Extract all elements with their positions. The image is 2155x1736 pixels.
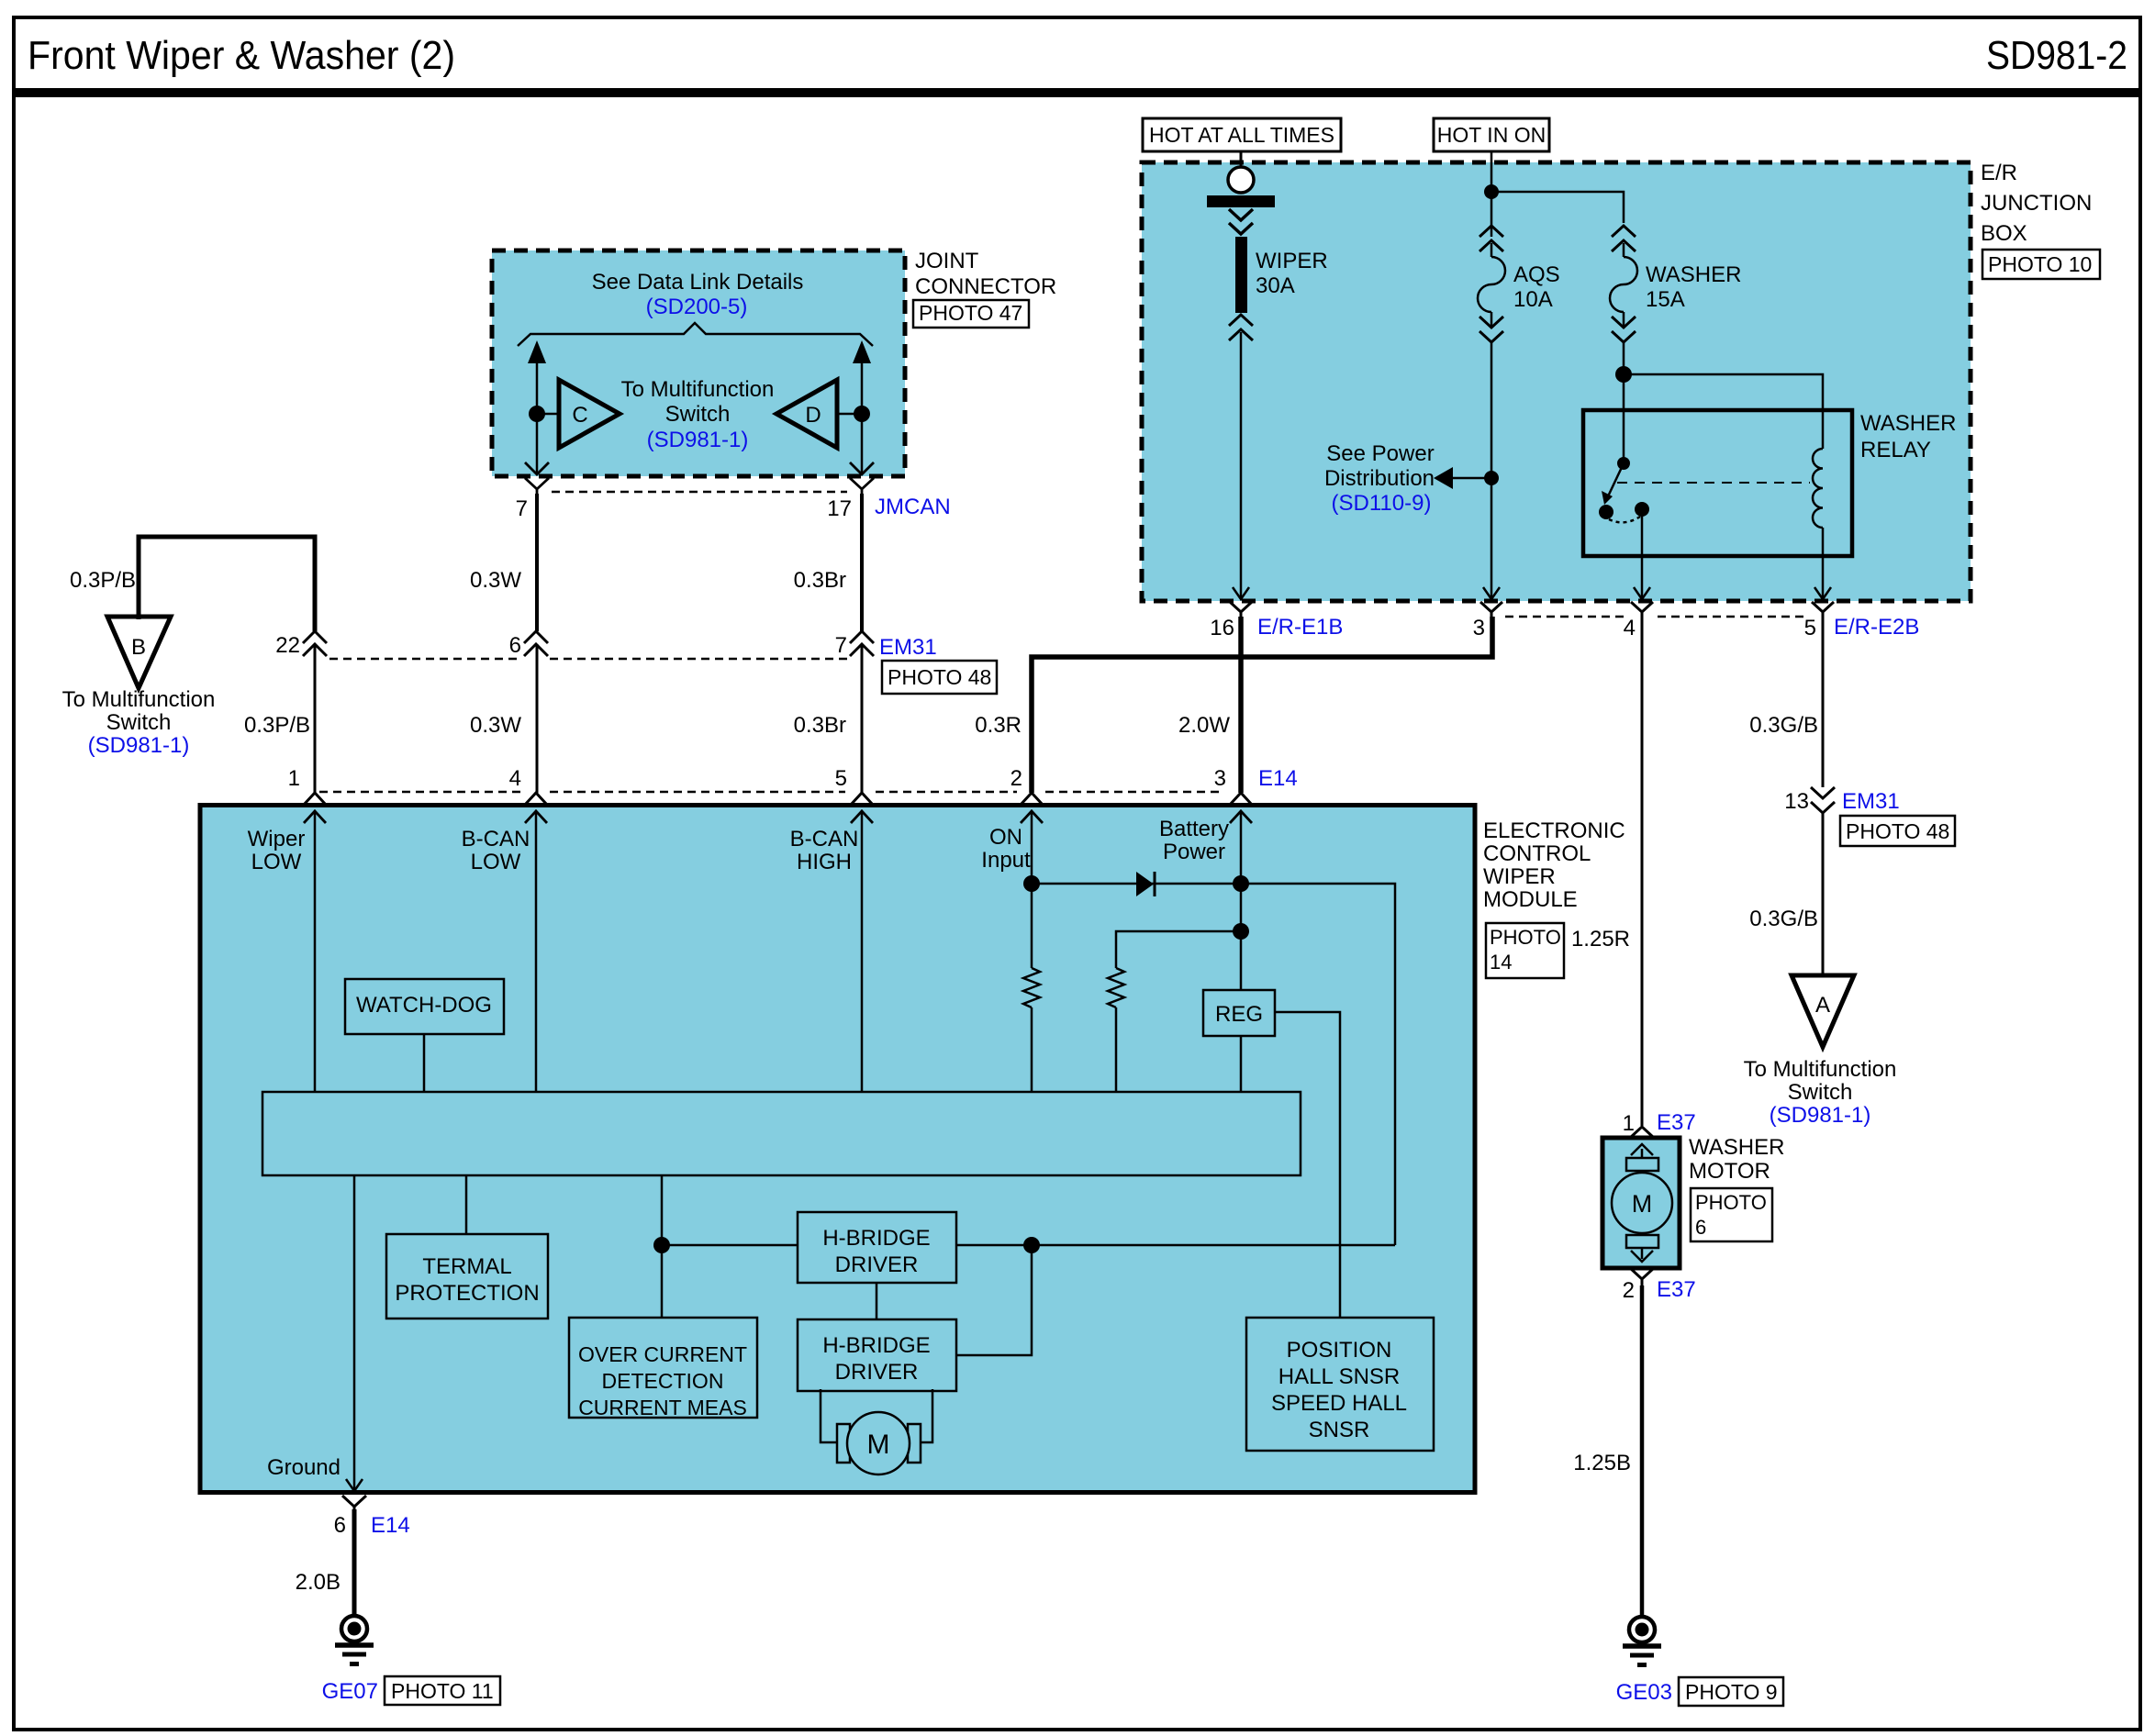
diode [1032, 883, 1241, 885]
node [1615, 366, 1632, 383]
termal protection box [386, 1234, 548, 1319]
svg-text:Distribution: Distribution [1324, 466, 1435, 491]
EM31-13 branch [1744, 618, 1955, 1128]
connector pin 7 EM31 [850, 631, 874, 656]
connector pin 7 JMCAN [525, 462, 549, 495]
svg-text:DETECTION: DETECTION [602, 1369, 724, 1393]
wire to h-bridge 1 [662, 1244, 798, 1247]
connector pin 6 [524, 631, 548, 656]
wires joint connector to E14 [244, 494, 1492, 793]
node on left wire [529, 406, 545, 422]
connector pin 13 EM31 [1811, 787, 1835, 813]
svg-text:5: 5 [1804, 616, 1816, 640]
svg-text:0.3P/B: 0.3P/B [70, 568, 136, 593]
wire to washer fuse [1491, 192, 1624, 223]
connector pin 1 E37 [1630, 1127, 1654, 1138]
node [1023, 1237, 1040, 1253]
wire 2.0B [352, 1509, 357, 1616]
svg-text:PROTECTION: PROTECTION [395, 1281, 539, 1306]
relay mech dashed line [1617, 482, 1810, 484]
node on right wire [854, 406, 870, 422]
svg-text:Switch: Switch [665, 402, 731, 427]
svg-text:HOT IN ON: HOT IN ON [1437, 123, 1546, 147]
wire on input [1031, 811, 1033, 968]
svg-text:H-BRIDGE: H-BRIDGE [822, 1333, 930, 1358]
svg-text:D: D [805, 403, 821, 428]
E14 connector row [288, 766, 1298, 805]
washer relay box [1583, 410, 1852, 556]
svg-text:Switch: Switch [106, 710, 172, 735]
EM31 connector row [275, 631, 997, 694]
module pin chevrons [304, 811, 1252, 823]
svg-text:GE03: GE03 [1616, 1680, 1672, 1705]
svg-text:14: 14 [1490, 951, 1512, 974]
connector pin 22 [303, 631, 327, 656]
svg-text:22: 22 [275, 633, 300, 658]
wire to termal protection [465, 1175, 468, 1234]
buffer C [559, 380, 620, 448]
E/R-E2B dashed link [1505, 616, 1626, 618]
wire 1.25B [1640, 1285, 1645, 1618]
wire battery power [1240, 811, 1243, 990]
svg-text:2: 2 [1623, 1278, 1635, 1303]
relay coil [1813, 449, 1823, 528]
connector pin 16 E/R-E1B [1230, 602, 1252, 620]
svg-text:2.0W: 2.0W [1178, 713, 1230, 738]
wire [861, 351, 864, 473]
svg-text:Switch: Switch [1788, 1080, 1853, 1105]
wire 0.3G/B upper [1822, 618, 1825, 787]
wire 0.3P/B lower [314, 644, 317, 793]
svg-text:AQS: AQS [1513, 262, 1560, 287]
svg-text:4: 4 [1624, 616, 1636, 640]
svg-text:TERMAL: TERMAL [422, 1254, 511, 1279]
brace [518, 323, 873, 346]
svg-text:0.3W: 0.3W [470, 568, 521, 593]
h-bridge driver 2 [798, 1319, 956, 1391]
svg-text:LOW: LOW [251, 850, 302, 874]
wire reg to bus [1240, 1036, 1243, 1092]
node [653, 1237, 670, 1253]
wiper motor M [821, 1389, 837, 1442]
svg-text:M: M [1632, 1190, 1653, 1218]
wire 0.3W lower [536, 644, 539, 793]
wire to resistor 2 [1116, 931, 1241, 968]
svg-text:13: 13 [1784, 789, 1809, 814]
svg-text:(SD110-9): (SD110-9) [1332, 491, 1432, 516]
svg-text:POSITION: POSITION [1287, 1338, 1392, 1363]
wire 0.3R thick elbow [1032, 617, 1492, 793]
svg-text:HIGH: HIGH [797, 850, 852, 874]
svg-text:30A: 30A [1256, 273, 1295, 298]
svg-text:0.3W: 0.3W [470, 713, 521, 738]
wire watch-dog to bus [423, 1034, 426, 1092]
resistor R batt [1108, 968, 1124, 1007]
svg-text:A: A [1815, 993, 1830, 1018]
over current detection box [569, 1318, 757, 1418]
connector pin 2 [1021, 793, 1043, 805]
svg-text:1.25R: 1.25R [1571, 927, 1630, 951]
label HOT IN ON [1434, 118, 1549, 151]
ground GE07 [341, 1616, 367, 1641]
svg-text:0.3Br: 0.3Br [794, 713, 846, 738]
connector pin 6 E14 [342, 1496, 366, 1507]
svg-text:7: 7 [835, 633, 847, 658]
connector pin 4 [1631, 602, 1653, 620]
svg-text:Wiper: Wiper [248, 827, 306, 851]
svg-text:0.3P/B: 0.3P/B [244, 713, 310, 738]
svg-text:E/R-E2B: E/R-E2B [1834, 615, 1919, 640]
ground GE03 [1629, 1617, 1655, 1642]
svg-text:SD981-2: SD981-2 [1986, 33, 2127, 78]
svg-text:SNSR: SNSR [1309, 1418, 1370, 1442]
svg-text:JOINT: JOINT [915, 249, 979, 273]
wire [536, 351, 539, 473]
svg-text:REG: REG [1215, 1002, 1263, 1027]
svg-text:15A: 15A [1646, 287, 1685, 312]
svg-text:MODULE: MODULE [1483, 887, 1578, 912]
E/R junction box [1142, 118, 2100, 640]
wire [537, 413, 559, 416]
svg-text:WASHER: WASHER [1646, 262, 1741, 287]
svg-text:2.0B: 2.0B [296, 1570, 341, 1595]
position hall snsr box [1246, 1318, 1434, 1451]
wire washer fuse to relay [1623, 342, 1625, 463]
svg-text:PHOTO 48: PHOTO 48 [888, 665, 991, 689]
left branch to multifunction switch [62, 537, 315, 758]
wire to pin 16 [1240, 332, 1243, 599]
wire ground [353, 1175, 356, 1493]
node [1233, 875, 1249, 892]
wire b-can low [535, 811, 538, 1092]
svg-text:M: M [867, 1430, 890, 1460]
wire h2 right elbow [956, 1245, 1032, 1355]
svg-text:E14: E14 [1258, 766, 1298, 791]
svg-text:E/R: E/R [1981, 161, 2017, 185]
svg-text:GE07: GE07 [322, 1679, 378, 1704]
REG box [1203, 990, 1275, 1036]
svg-text:PHOTO 47: PHOTO 47 [919, 301, 1022, 325]
svg-text:HOT AT ALL TIMES: HOT AT ALL TIMES [1149, 123, 1334, 147]
wire wiper low [314, 811, 317, 1092]
wire 1.25R [1641, 618, 1644, 1126]
svg-text:CONTROL: CONTROL [1483, 841, 1591, 866]
connector pin 5 [851, 793, 873, 805]
svg-text:0.3G/B: 0.3G/B [1749, 713, 1818, 738]
svg-text:CONNECTOR: CONNECTOR [915, 274, 1056, 299]
node see power distribution [1484, 471, 1499, 485]
svg-text:WASHER: WASHER [1689, 1135, 1784, 1160]
off-page connector B [107, 617, 171, 688]
wire AQS to pin 3 [1491, 342, 1493, 599]
svg-text:DRIVER: DRIVER [835, 1360, 919, 1385]
svg-text:6: 6 [334, 1513, 346, 1538]
svg-text:Ground: Ground [267, 1455, 341, 1480]
svg-text:1: 1 [288, 766, 300, 791]
wire elbow 0.3P/B [139, 537, 315, 631]
svg-text:(SD200-5): (SD200-5) [646, 295, 748, 319]
washer motor [1602, 1138, 1680, 1268]
node [1233, 923, 1249, 940]
resistor R on [1023, 968, 1040, 1007]
svg-text:1.25B: 1.25B [1573, 1451, 1631, 1475]
svg-text:EM31: EM31 [1842, 789, 1900, 814]
svg-text:PHOTO 10: PHOTO 10 [1988, 252, 2092, 276]
svg-text:(SD981-1): (SD981-1) [647, 428, 749, 452]
svg-text:OVER CURRENT: OVER CURRENT [578, 1342, 747, 1366]
svg-text:H-BRIDGE: H-BRIDGE [822, 1226, 930, 1251]
svg-text:E/R-E1B: E/R-E1B [1257, 615, 1343, 640]
arrowhead up right [853, 340, 871, 363]
wire 2.0W thick [1238, 617, 1244, 793]
svg-text:E37: E37 [1657, 1110, 1696, 1135]
svg-text:WIPER: WIPER [1483, 864, 1556, 889]
connector pin 17 JMCAN [850, 462, 874, 495]
svg-text:Battery: Battery [1159, 817, 1229, 841]
cpu bus bar [262, 1092, 1301, 1175]
electronic control wiper module [200, 806, 1625, 1494]
svg-text:4: 4 [509, 766, 521, 791]
svg-text:3: 3 [1473, 616, 1485, 640]
wire 0.3Br upper [860, 494, 864, 631]
svg-text:6: 6 [1695, 1216, 1706, 1239]
node [1484, 184, 1499, 199]
wire battery feed right [1241, 884, 1395, 1245]
svg-text:WATCH-DOG: WATCH-DOG [356, 993, 492, 1018]
watch-dog [345, 979, 504, 1034]
arrowhead up left [528, 340, 546, 363]
svg-text:E14: E14 [371, 1513, 410, 1538]
fuse WASHER 15A [1610, 226, 1637, 342]
washer motor branch [1571, 618, 1785, 1706]
svg-text:B-CAN: B-CAN [790, 827, 859, 851]
connector pin 1 [304, 793, 326, 805]
svg-text:Input: Input [981, 848, 1031, 873]
svg-text:6: 6 [509, 633, 521, 658]
svg-text:HALL SNSR: HALL SNSR [1278, 1364, 1401, 1389]
fusible link WIPER 30A [1235, 237, 1247, 313]
connector pin 3 [1480, 602, 1502, 620]
svg-text:C: C [572, 403, 587, 428]
svg-text:1: 1 [1623, 1111, 1635, 1136]
battery feed terminal [1240, 151, 1243, 167]
svg-text:10A: 10A [1513, 287, 1553, 312]
svg-text:To Multifunction: To Multifunction [62, 687, 216, 712]
off-page connector A [1792, 975, 1854, 1047]
wire b-can high [861, 811, 864, 1092]
svg-text:RELAY: RELAY [1860, 438, 1931, 462]
svg-text:PHOTO: PHOTO [1490, 926, 1561, 949]
connector pin 3 E14 [1230, 793, 1252, 805]
wire coil to pin 5 [1822, 528, 1825, 599]
wire contact to pin 4 [1641, 509, 1644, 599]
wire to relay coil [1624, 374, 1823, 449]
svg-text:PHOTO 11: PHOTO 11 [391, 1679, 494, 1703]
h-bridge driver 1 [798, 1212, 956, 1283]
svg-text:17: 17 [827, 496, 852, 521]
svg-text:E37: E37 [1657, 1277, 1696, 1302]
svg-text:0.3R: 0.3R [975, 713, 1022, 738]
svg-text:ELECTRONIC: ELECTRONIC [1483, 818, 1625, 843]
svg-text:ON: ON [989, 825, 1022, 850]
dashed link [329, 658, 521, 661]
svg-text:(SD981-1): (SD981-1) [1770, 1103, 1871, 1128]
wire [837, 413, 862, 416]
svg-text:MOTOR: MOTOR [1689, 1159, 1770, 1184]
see power distribution arrow [1451, 477, 1491, 480]
svg-text:7: 7 [516, 496, 528, 521]
svg-text:WIPER: WIPER [1256, 249, 1328, 273]
svg-text:PHOTO 48: PHOTO 48 [1846, 819, 1949, 843]
svg-text:PHOTO: PHOTO [1695, 1191, 1767, 1214]
wire 0.3Br lower [861, 644, 864, 793]
svg-text:16: 16 [1210, 616, 1234, 640]
svg-text:SPEED HALL: SPEED HALL [1271, 1391, 1407, 1416]
relay switch [1617, 457, 1630, 470]
wire HOT IN ON down [1491, 151, 1493, 192]
svg-text:JMCAN: JMCAN [875, 495, 951, 519]
joint connector box [492, 249, 1056, 521]
svg-text:B: B [131, 635, 146, 660]
svg-text:EM31: EM31 [879, 635, 937, 660]
connector pin 5 E/R-E2B [1812, 602, 1834, 620]
wire reg to position sensor [1275, 1012, 1340, 1318]
svg-text:DRIVER: DRIVER [835, 1252, 919, 1277]
buffer D [776, 380, 837, 448]
connector pin 4 [525, 793, 547, 805]
wire h1 right to battery branch [956, 1244, 1395, 1247]
svg-text:CURRENT MEAS: CURRENT MEAS [578, 1396, 747, 1419]
svg-text:3: 3 [1214, 766, 1226, 791]
connector pin 2 E37 [1630, 1268, 1654, 1279]
wire 0.3G/B lower [1822, 811, 1825, 975]
svg-text:To Multifunction: To Multifunction [1744, 1057, 1897, 1082]
svg-text:JUNCTION: JUNCTION [1981, 191, 2092, 216]
module ground path [296, 1496, 500, 1705]
svg-text:See Data Link Details: See Data Link Details [592, 270, 804, 295]
svg-text:B-CAN: B-CAN [462, 827, 530, 851]
label HOT AT ALL TIMES [1143, 118, 1341, 151]
svg-text:5: 5 [835, 766, 847, 791]
fuse AQS 10A [1478, 192, 1505, 342]
svg-text:2: 2 [1011, 766, 1022, 791]
svg-text:To Multifunction: To Multifunction [621, 377, 775, 402]
svg-text:PHOTO 9: PHOTO 9 [1685, 1680, 1778, 1704]
wire h1 to h2 [876, 1283, 878, 1319]
node [1023, 875, 1040, 892]
wire to over current [661, 1175, 664, 1318]
svg-text:WASHER: WASHER [1860, 411, 1956, 436]
svg-text:BOX: BOX [1981, 221, 2027, 246]
wire 0.3W upper [535, 494, 539, 631]
svg-text:See Power: See Power [1326, 441, 1434, 466]
svg-text:Front Wiper & Washer (2): Front Wiper & Washer (2) [28, 33, 455, 78]
svg-text:Power: Power [1163, 840, 1225, 864]
svg-text:0.3G/B: 0.3G/B [1749, 907, 1818, 931]
svg-text:0.3Br: 0.3Br [794, 568, 846, 593]
JMCAN dashed link [552, 491, 847, 494]
svg-text:LOW: LOW [471, 850, 521, 874]
svg-text:(SD981-1): (SD981-1) [88, 733, 190, 758]
